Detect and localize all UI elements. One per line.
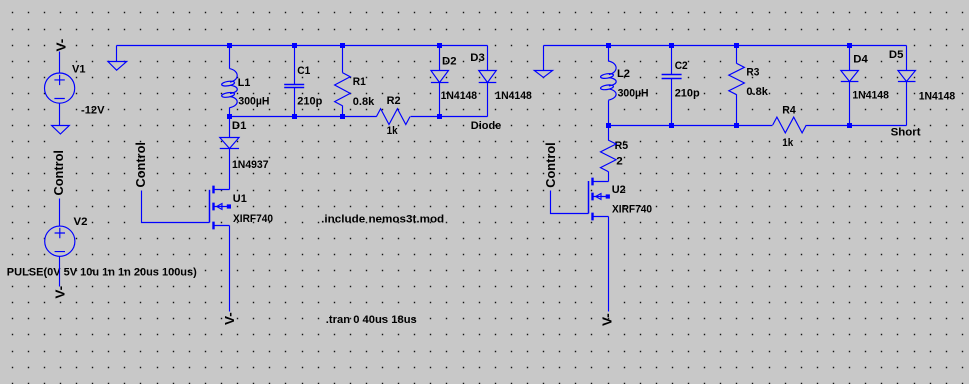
svg-text:1N4148: 1N4148 [441,90,478,102]
svg-text:U2: U2 [612,184,626,196]
svg-text:1k: 1k [782,137,794,149]
svg-text:D5: D5 [889,49,904,61]
svg-text:Short: Short [891,126,921,138]
svg-text:XIRF740: XIRF740 [233,213,273,225]
svg-text:C1: C1 [297,65,310,77]
svg-text:Diode: Diode [471,120,502,132]
svg-text:V-: V- [600,313,615,326]
svg-text:210p: 210p [297,95,322,107]
svg-text:D4: D4 [853,53,868,65]
svg-text:V-: V- [222,312,237,325]
svg-text:V1: V1 [72,64,86,76]
svg-text:R2: R2 [387,95,401,107]
svg-text:-12V: -12V [81,105,105,117]
svg-text:V-: V- [52,286,67,299]
svg-text:.include nemos3t.mod: .include nemos3t.mod [321,214,444,226]
svg-text:Control: Control [51,150,66,196]
svg-text:1N4148: 1N4148 [852,89,889,101]
svg-text:V-: V- [54,39,69,52]
svg-text:V2: V2 [74,216,88,228]
svg-text:.tran 0 40us 18us: .tran 0 40us 18us [326,314,417,326]
svg-text:1N4937: 1N4937 [232,159,269,171]
svg-text:2: 2 [616,156,623,168]
svg-text:D2: D2 [442,56,457,68]
svg-text:L2: L2 [617,68,630,80]
svg-text:300µH: 300µH [618,87,649,99]
svg-text:XIRF740: XIRF740 [612,204,652,216]
svg-text:R1: R1 [353,76,366,88]
svg-text:R4: R4 [782,104,796,116]
svg-text:210p: 210p [675,87,700,99]
svg-text:1N4148: 1N4148 [495,90,532,102]
svg-text:Control: Control [133,142,148,188]
svg-text:R5: R5 [615,140,629,152]
svg-text:PULSE(0V 5V 10u 1n 1n 20us 100: PULSE(0V 5V 10u 1n 1n 20us 100us) [7,267,197,279]
svg-text:C2: C2 [675,60,688,72]
svg-text:U1: U1 [233,193,247,205]
svg-text:L1: L1 [238,77,251,89]
svg-text:D3: D3 [470,52,485,64]
svg-text:0.8k: 0.8k [746,86,768,98]
svg-text:1k: 1k [387,125,399,137]
svg-text:300µH: 300µH [238,96,269,108]
svg-text:Control: Control [543,142,558,188]
svg-text:1N4148: 1N4148 [919,91,956,103]
svg-text:R3: R3 [746,67,759,79]
svg-text:D1: D1 [232,120,247,132]
svg-text:0.8k: 0.8k [353,96,375,108]
